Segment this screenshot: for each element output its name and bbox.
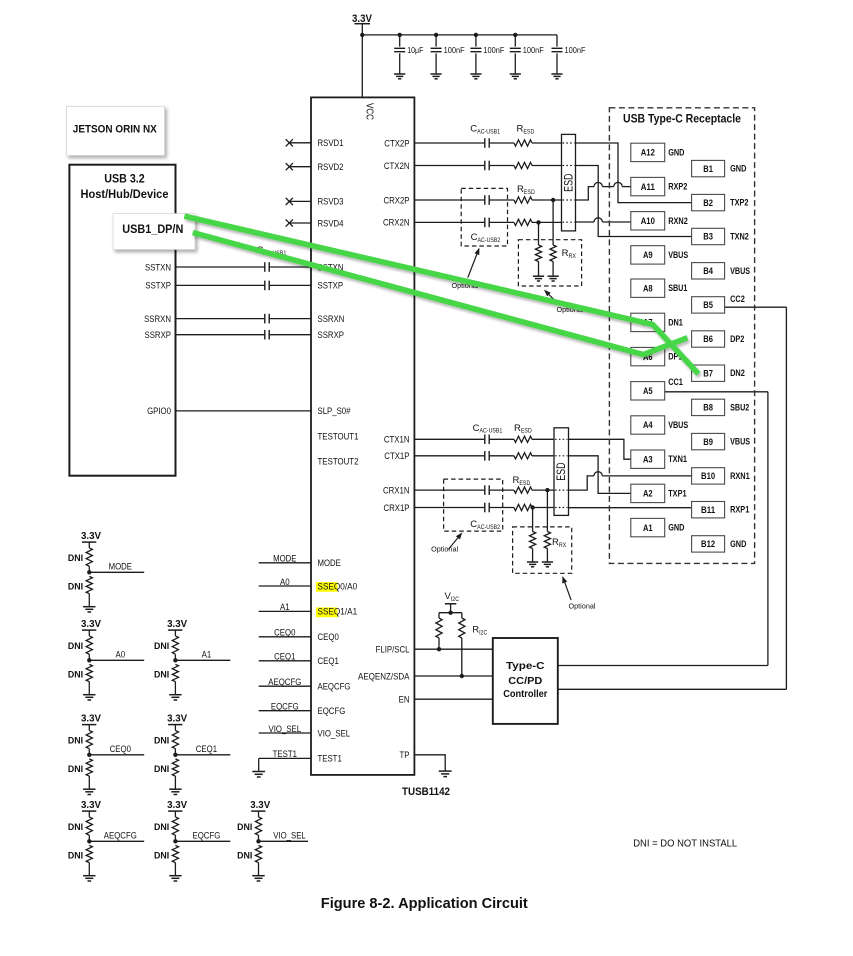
svg-text:CC/PD: CC/PD bbox=[508, 676, 542, 687]
svg-text:RSVD4: RSVD4 bbox=[318, 218, 344, 228]
svg-text:DNI: DNI bbox=[68, 641, 83, 652]
svg-text:DNI: DNI bbox=[154, 669, 169, 680]
svg-text:CEQ1: CEQ1 bbox=[196, 744, 217, 754]
svg-text:A8: A8 bbox=[643, 283, 653, 294]
svg-text:RXP1: RXP1 bbox=[730, 505, 749, 515]
svg-text:CTX2P: CTX2P bbox=[384, 138, 409, 148]
svg-text:RXP2: RXP2 bbox=[668, 182, 687, 192]
svg-text:B2: B2 bbox=[703, 198, 713, 209]
svg-text:CRX1N: CRX1N bbox=[383, 485, 410, 495]
svg-text:SSRXN: SSRXN bbox=[144, 314, 171, 324]
svg-text:B10: B10 bbox=[701, 471, 715, 482]
svg-text:VBUS: VBUS bbox=[730, 437, 750, 447]
svg-text:AEQCFG: AEQCFG bbox=[318, 682, 351, 692]
svg-text:CRX2P: CRX2P bbox=[384, 195, 410, 205]
svg-text:MODE: MODE bbox=[109, 561, 132, 571]
svg-text:CRX1P: CRX1P bbox=[384, 503, 410, 513]
svg-text:3.3V: 3.3V bbox=[167, 714, 187, 725]
svg-text:A0: A0 bbox=[280, 577, 290, 587]
svg-text:B3: B3 bbox=[703, 232, 713, 243]
svg-text:A5: A5 bbox=[643, 386, 653, 397]
svg-text:3.3V: 3.3V bbox=[167, 800, 187, 811]
svg-text:JETSON ORIN NX: JETSON ORIN NX bbox=[73, 124, 158, 136]
svg-text:ESD: ESD bbox=[561, 173, 575, 192]
svg-text:GND: GND bbox=[730, 539, 746, 549]
svg-text:TP: TP bbox=[400, 750, 410, 760]
svg-text:100nF: 100nF bbox=[444, 46, 465, 55]
svg-text:B1: B1 bbox=[703, 164, 713, 175]
svg-text:CC1: CC1 bbox=[668, 377, 683, 387]
svg-text:TEST1: TEST1 bbox=[318, 754, 342, 764]
svg-text:GND: GND bbox=[668, 147, 684, 157]
svg-text:GND: GND bbox=[730, 164, 746, 174]
svg-text:EQCFG: EQCFG bbox=[318, 706, 346, 716]
svg-text:3.3V: 3.3V bbox=[250, 800, 270, 811]
svg-text:DNI: DNI bbox=[154, 850, 169, 861]
svg-text:VBUS: VBUS bbox=[730, 266, 750, 276]
svg-text:DNI: DNI bbox=[237, 822, 252, 833]
svg-text:GPIO0: GPIO0 bbox=[147, 406, 171, 416]
svg-text:USB Type-C Receptacle: USB Type-C Receptacle bbox=[623, 111, 741, 125]
svg-text:Type-C: Type-C bbox=[506, 661, 545, 672]
svg-text:DNI: DNI bbox=[68, 822, 83, 833]
svg-text:TXN2: TXN2 bbox=[730, 232, 749, 242]
svg-text:RXN1: RXN1 bbox=[730, 471, 750, 481]
svg-text:AEQENZ/SDA: AEQENZ/SDA bbox=[358, 671, 410, 681]
svg-text:Controller: Controller bbox=[503, 689, 547, 700]
svg-text:VIO_SEL: VIO_SEL bbox=[318, 728, 351, 738]
svg-text:SSTXN: SSTXN bbox=[145, 262, 171, 272]
svg-text:MODE: MODE bbox=[273, 554, 296, 564]
svg-text:CC2: CC2 bbox=[730, 294, 745, 304]
svg-text:100nF: 100nF bbox=[565, 46, 586, 55]
svg-text:B8: B8 bbox=[703, 403, 713, 414]
svg-text:USB1_DP/N: USB1_DP/N bbox=[122, 222, 183, 236]
svg-text:SSEQ1/A1: SSEQ1/A1 bbox=[318, 607, 358, 617]
svg-text:CTX1P: CTX1P bbox=[384, 451, 409, 461]
svg-text:CTX2N: CTX2N bbox=[384, 161, 410, 171]
svg-text:VBUS: VBUS bbox=[668, 420, 688, 430]
svg-text:A12: A12 bbox=[641, 148, 655, 159]
svg-text:CEQ0: CEQ0 bbox=[318, 632, 339, 642]
svg-text:RXN2: RXN2 bbox=[668, 216, 688, 226]
svg-text:AEQCFG: AEQCFG bbox=[104, 830, 137, 840]
svg-text:TEST1: TEST1 bbox=[273, 749, 297, 759]
svg-text:3.3V: 3.3V bbox=[81, 531, 101, 542]
svg-text:VIO_SEL: VIO_SEL bbox=[269, 724, 302, 734]
svg-text:A3: A3 bbox=[643, 454, 653, 465]
svg-text:Host/Hub/Device: Host/Hub/Device bbox=[81, 189, 169, 201]
svg-text:USB 3.2: USB 3.2 bbox=[104, 173, 145, 185]
svg-text:CRX2N: CRX2N bbox=[383, 218, 410, 228]
svg-text:DNI: DNI bbox=[68, 850, 83, 861]
svg-text:SSTXP: SSTXP bbox=[145, 281, 171, 291]
svg-text:RSVD3: RSVD3 bbox=[318, 197, 344, 207]
svg-text:DNI: DNI bbox=[68, 764, 83, 775]
svg-text:SSEQ0/A0: SSEQ0/A0 bbox=[318, 581, 358, 591]
svg-text:SSRXN: SSRXN bbox=[318, 314, 345, 324]
svg-text:A1: A1 bbox=[202, 649, 212, 659]
svg-text:EN: EN bbox=[399, 695, 410, 705]
svg-text:CTX1N: CTX1N bbox=[384, 435, 410, 445]
svg-text:RSVD2: RSVD2 bbox=[318, 162, 344, 172]
svg-text:EQCFG: EQCFG bbox=[193, 830, 221, 840]
svg-text:TUSB1142: TUSB1142 bbox=[402, 786, 450, 798]
svg-text:DNI: DNI bbox=[68, 669, 83, 680]
svg-text:TXP1: TXP1 bbox=[668, 488, 686, 498]
svg-text:RSVD1: RSVD1 bbox=[318, 138, 344, 148]
svg-text:TESTOUT2: TESTOUT2 bbox=[318, 457, 359, 467]
svg-text:B6: B6 bbox=[703, 334, 713, 345]
svg-text:B7: B7 bbox=[703, 368, 713, 379]
svg-text:B5: B5 bbox=[703, 300, 713, 311]
svg-text:3.3V: 3.3V bbox=[81, 800, 101, 811]
svg-text:DNI: DNI bbox=[68, 553, 83, 564]
svg-text:B9: B9 bbox=[703, 437, 713, 448]
svg-text:Figure 8-2. Application Circui: Figure 8-2. Application Circuit bbox=[321, 896, 528, 912]
svg-text:VIO_SEL: VIO_SEL bbox=[273, 830, 306, 840]
svg-text:DP2: DP2 bbox=[730, 334, 744, 344]
svg-text:A9: A9 bbox=[643, 250, 653, 261]
svg-text:FLIP/SCL: FLIP/SCL bbox=[376, 645, 410, 655]
svg-text:SBU2: SBU2 bbox=[730, 402, 749, 412]
svg-text:DNI: DNI bbox=[154, 736, 169, 747]
svg-text:CEQ1: CEQ1 bbox=[318, 656, 339, 666]
svg-text:TXP2: TXP2 bbox=[730, 198, 748, 208]
svg-text:A4: A4 bbox=[643, 420, 653, 431]
svg-text:100nF: 100nF bbox=[523, 46, 544, 55]
svg-text:B4: B4 bbox=[703, 266, 713, 277]
svg-text:B11: B11 bbox=[701, 505, 716, 516]
svg-text:B12: B12 bbox=[701, 539, 715, 550]
svg-text:TESTOUT1: TESTOUT1 bbox=[318, 432, 359, 442]
svg-text:SSRXP: SSRXP bbox=[318, 330, 345, 340]
svg-text:TXN1: TXN1 bbox=[668, 454, 687, 464]
svg-text:A10: A10 bbox=[641, 216, 655, 227]
svg-text:GND: GND bbox=[668, 523, 684, 533]
svg-text:A2: A2 bbox=[643, 489, 653, 500]
svg-text:CEQ1: CEQ1 bbox=[274, 652, 295, 662]
svg-text:SSTXP: SSTXP bbox=[318, 281, 344, 291]
svg-text:Optional: Optional bbox=[431, 547, 458, 554]
svg-text:VCC: VCC bbox=[363, 103, 375, 120]
svg-text:SBU1: SBU1 bbox=[668, 283, 687, 293]
svg-text:MODE: MODE bbox=[318, 558, 341, 568]
svg-text:DNI: DNI bbox=[68, 581, 83, 592]
svg-text:DNI = DO NOT INSTALL: DNI = DO NOT INSTALL bbox=[633, 837, 737, 849]
svg-text:CEQ0: CEQ0 bbox=[274, 628, 295, 638]
svg-text:10μF: 10μF bbox=[407, 46, 423, 55]
svg-text:DN1: DN1 bbox=[668, 317, 683, 327]
svg-text:3.3V: 3.3V bbox=[167, 619, 187, 630]
svg-text:Optional: Optional bbox=[569, 604, 596, 611]
svg-text:DNI: DNI bbox=[154, 641, 169, 652]
svg-text:3.3V: 3.3V bbox=[81, 619, 101, 630]
svg-text:VBUS: VBUS bbox=[668, 250, 688, 260]
svg-text:100nF: 100nF bbox=[483, 46, 504, 55]
svg-text:3.3V: 3.3V bbox=[81, 714, 101, 725]
svg-text:DNI: DNI bbox=[68, 736, 83, 747]
svg-text:ESD: ESD bbox=[554, 462, 568, 481]
svg-text:A11: A11 bbox=[641, 182, 656, 193]
svg-text:SLP_S0#: SLP_S0# bbox=[318, 406, 352, 416]
svg-text:AEQCFG: AEQCFG bbox=[268, 677, 301, 687]
svg-text:DNI: DNI bbox=[154, 822, 169, 833]
svg-text:SSRXP: SSRXP bbox=[145, 330, 172, 340]
svg-text:DNI: DNI bbox=[237, 850, 252, 861]
svg-text:DNI: DNI bbox=[154, 764, 169, 775]
svg-text:A0: A0 bbox=[116, 649, 126, 659]
svg-text:A1: A1 bbox=[280, 602, 290, 612]
svg-text:CEQ0: CEQ0 bbox=[110, 744, 131, 754]
svg-text:EQCFG: EQCFG bbox=[271, 702, 299, 712]
svg-text:A1: A1 bbox=[643, 523, 653, 534]
svg-text:DN2: DN2 bbox=[730, 368, 745, 378]
